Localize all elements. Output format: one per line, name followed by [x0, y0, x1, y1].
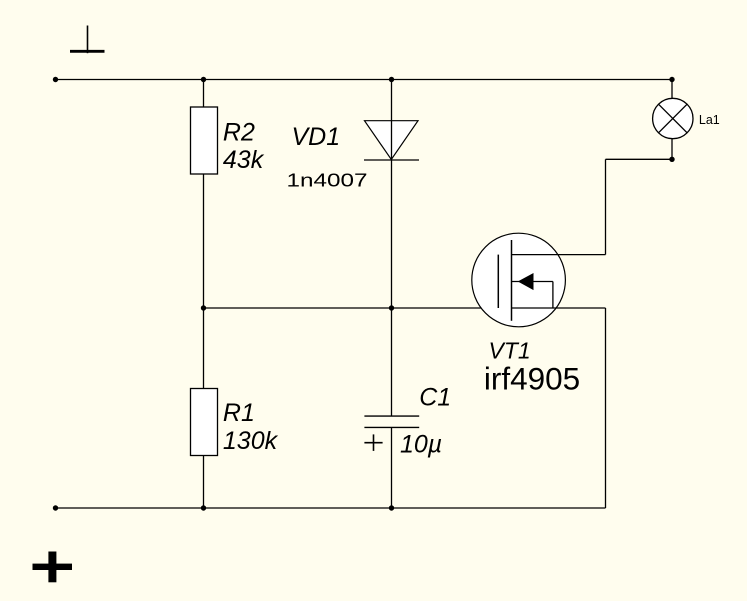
- svg-text:VT1: VT1: [489, 337, 531, 363]
- svg-text:R1: R1: [223, 399, 255, 427]
- svg-text:R2: R2: [223, 119, 255, 147]
- svg-text:VD1: VD1: [292, 123, 341, 151]
- svg-text:10µ: 10µ: [400, 431, 442, 459]
- svg-text:1n4007: 1n4007: [287, 170, 368, 190]
- svg-text:C1: C1: [419, 384, 451, 412]
- svg-text:irf4905: irf4905: [484, 361, 580, 397]
- svg-text:La1: La1: [699, 113, 720, 127]
- svg-text:130k: 130k: [223, 427, 279, 455]
- svg-text:43k: 43k: [223, 146, 265, 174]
